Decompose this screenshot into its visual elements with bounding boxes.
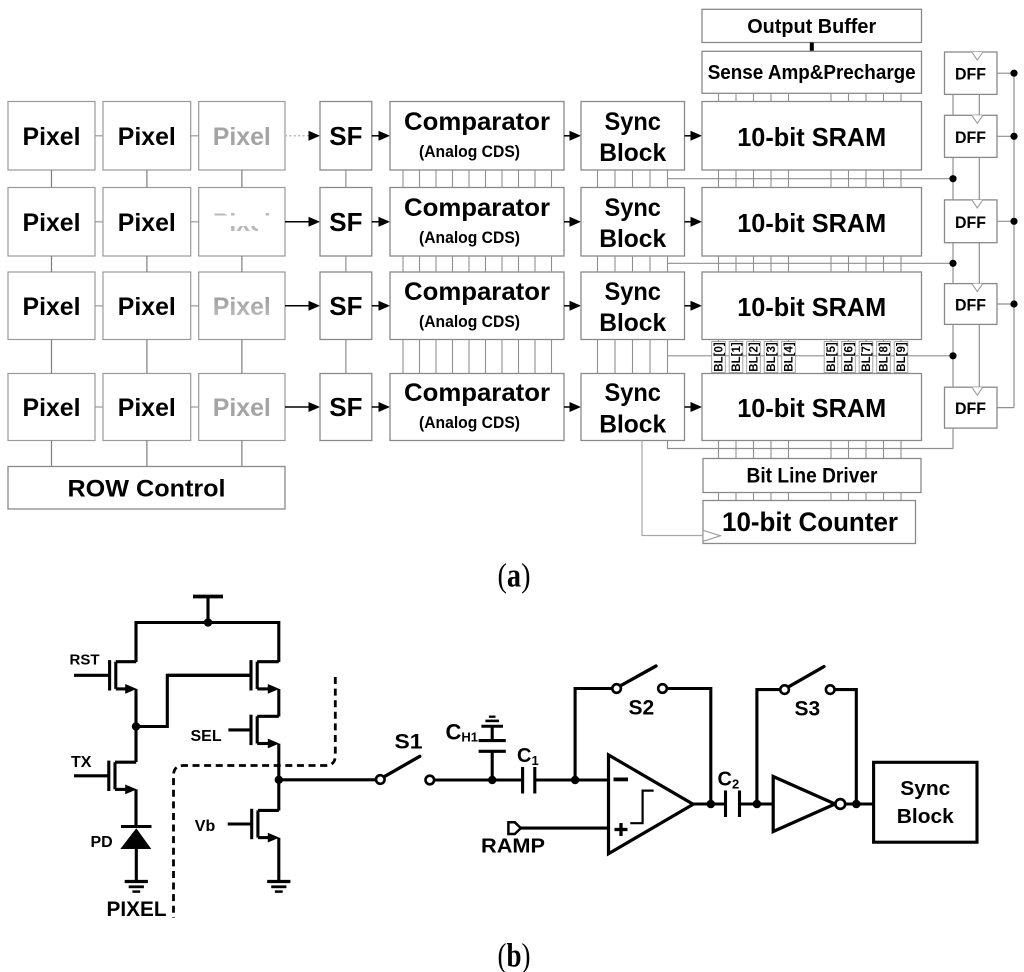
svg-text:DFF: DFF [955, 213, 986, 232]
node label BL[6] [842, 342, 856, 373]
wire FD to SF gate [136, 675, 251, 726]
wire TX source to PD [134, 789, 137, 827]
svg-text:BL[8]: BL[8] [879, 342, 891, 372]
switch S2 blade [620, 666, 656, 686]
wire pixel link r1 c1-c2 [95, 135, 103, 137]
wire pixel column link col2 gap3 [146, 340, 148, 374]
wire sync row2 to DFF chain [668, 262, 954, 264]
arrow Pixel to SF row3 [285, 305, 309, 307]
wire comparator bus line 4 gap3 [468, 340, 470, 374]
svg-text:S2: S2 [629, 697, 655, 720]
wire DFF4 to DFF5 clock [978, 324, 980, 387]
wire sync bus line 1 gap2 [614, 256, 616, 272]
svg-text:PD: PD [91, 834, 113, 851]
wire SRAM2-SRAM3 bit line 5 [830, 256, 832, 272]
switch S1 blade [384, 756, 420, 777]
node FD junction dot [132, 722, 140, 730]
capacitor CH1 [479, 750, 506, 753]
wire BitLineDriver-Counter bit line 7 [865, 493, 867, 501]
wire pixel link r2 c2-c3 [191, 221, 199, 223]
arrow Sync to SRAM row4 [685, 406, 691, 408]
switch S3 right contact [826, 685, 835, 694]
wire comparator bus line 1 gap2 [419, 256, 421, 272]
op-amp plus sign [615, 828, 628, 831]
svg-text:Sync: Sync [604, 278, 661, 306]
node label BL[2] [747, 342, 761, 373]
wire comparator bus line 5 gap2 [485, 256, 487, 272]
wire BitLineDriver-Counter bit line 6 [848, 493, 850, 501]
svg-text:Vb: Vb [195, 818, 216, 835]
wire BitLineDriver-Counter bit line 3 [770, 493, 772, 501]
arrow SF to Comparator row3 [372, 305, 379, 307]
block Pixel row1 col2 [103, 102, 191, 171]
wire SRAM2-SRAM3 bit line 9 [900, 256, 902, 272]
wire SRAM4-BitLineDriver bit line 9 [900, 441, 902, 459]
wire pixel column link col1 gap3 [51, 340, 53, 374]
wire Sync row4 to Counter clock [642, 441, 703, 536]
wire SF column link gap3 [345, 340, 347, 374]
block Comparator row4 [390, 374, 564, 441]
wire SRAM3-SRAM4 bit line 7 [865, 340, 867, 374]
wire DFF2 output stub [997, 135, 1014, 137]
wire SRAM3-SRAM4 bit line 9 [900, 340, 902, 374]
wire pixel link r4 c2-c3 [191, 406, 199, 408]
svg-text:(Analog CDS): (Analog CDS) [419, 312, 520, 331]
block Sync Block row4 [581, 374, 685, 441]
wire SRAM3-SRAM4 bit line 4 [788, 340, 790, 374]
ground Vb [267, 880, 290, 883]
wire SenseAmp-SRAM1 bit line 8 [883, 93, 885, 101]
wire inverter to Sync Block [845, 802, 873, 805]
wire SRAM2-SRAM3 bit line 2 [753, 256, 755, 272]
block Pixel row3 col1 [8, 272, 95, 340]
wire S3 loop left [757, 690, 780, 804]
wire SRAM3-SRAM4 bit line 3 [770, 340, 772, 374]
node inverter input dot [753, 800, 762, 809]
capacitor C1 [521, 767, 524, 794]
svg-text:SF: SF [329, 207, 362, 237]
svg-text:(a): (a) [498, 558, 531, 595]
svg-text:SEL: SEL [191, 728, 222, 745]
wire VDD rail to SF drain [277, 621, 280, 662]
switch S3 left contact [780, 685, 789, 694]
node label BL[5] [824, 342, 838, 373]
wire SRAM2-SRAM3 bit line 6 [848, 256, 850, 272]
wire pixel column link col3 gap2 [241, 256, 243, 272]
transistor SF M3 [167, 674, 251, 677]
svg-text:Sync: Sync [900, 778, 950, 800]
wire SRAM2-SRAM3 bit line 8 [883, 256, 885, 272]
wire DFF1 output stub [997, 72, 1014, 74]
wire SRAM2-SRAM3 bit line 4 [788, 256, 790, 272]
block Sense Amp&Precharge [702, 51, 922, 93]
wire DFF1 to DFF2 left [952, 94, 954, 115]
svg-text:ROW Control: ROW Control [68, 476, 226, 503]
wire SRAM4-BitLineDriver bit line 8 [883, 441, 885, 459]
junction dot DFF1 output [1010, 70, 1017, 77]
switch S1 left contact [376, 775, 385, 784]
block Pixel row3 col3 [199, 272, 285, 340]
svg-text:Pixel: Pixel [23, 293, 81, 321]
wire comparator bus line 3 gap2 [452, 256, 454, 272]
flip-flop DFF1 [945, 52, 998, 94]
wire sync bus line 4 gap1 [667, 170, 669, 188]
svg-text:Pixel: Pixel [213, 123, 271, 151]
junction dot sync row3 wire [949, 352, 956, 359]
wire BitLineDriver-Counter bit line 5 [830, 493, 832, 501]
wire pixel col2 to ROW Control [146, 441, 148, 467]
wire SRAM2-SRAM3 bit line 0 [718, 256, 720, 272]
capacitor C2 [724, 791, 727, 818]
svg-text:BL[5]: BL[5] [826, 342, 838, 372]
svg-text:BL[0]: BL[0] [714, 342, 726, 372]
arrow Pixel to SF row4 [285, 406, 309, 408]
wire DFF2 to DFF3 left [952, 157, 954, 200]
wire pixel column link col1 gap2 [51, 256, 53, 272]
svg-text:PIXEL: PIXEL [107, 898, 167, 921]
wire SRAM1-SRAM2 bit line 5 [830, 170, 832, 188]
wire SRAM3-SRAM4 bit line 8 [883, 340, 885, 374]
junction dot sync row2 wire [949, 260, 956, 267]
wire comparator bus line 2 gap1 [435, 170, 437, 188]
wire sync bus line 0 gap2 [597, 256, 599, 272]
block SF row3 [320, 272, 372, 340]
wire S2 loop left [575, 689, 612, 781]
wire comparator bus line 7 gap1 [518, 170, 520, 188]
wire SF column link gap1 [345, 170, 347, 188]
wire DFF3 to DFF4 clock [978, 243, 980, 284]
block Output Buffer [702, 9, 922, 42]
svg-text:Pixel: Pixel [118, 123, 176, 151]
wire SRAM3-SRAM4 bit line 0 [718, 340, 720, 374]
port RAMP [508, 822, 520, 834]
node label BL[3] [764, 342, 778, 373]
wire column node to S1 [279, 778, 376, 781]
inverter U2 [773, 777, 835, 832]
svg-text:C1: C1 [517, 745, 539, 768]
svg-text:10-bit SRAM: 10-bit SRAM [737, 292, 886, 322]
wire SRAM1-SRAM2 bit line 0 [718, 170, 720, 188]
wire column node to Vb drain [277, 780, 280, 811]
block Comparator row2 [390, 188, 564, 257]
wire sync row3 to DFF chain [668, 355, 954, 357]
arrow SF to Comparator row1 [372, 135, 379, 137]
svg-text:Sense Amp&Precharge: Sense Amp&Precharge [708, 62, 916, 84]
wire comparator bus line 8 gap3 [534, 340, 536, 374]
node label BL[1] [729, 342, 743, 373]
wire DFF2 to DFF3 clock [978, 157, 980, 200]
clock wedge DFF1 [972, 52, 983, 60]
wire comparator bus line 6 gap1 [501, 170, 503, 188]
wire SRAM1-SRAM2 bit line 2 [753, 170, 755, 188]
wire SRAM4-BitLineDriver bit line 0 [718, 441, 720, 459]
clock wedge DFF3 [972, 200, 983, 208]
svg-text:BL[1]: BL[1] [731, 342, 743, 372]
svg-text:Comparator: Comparator [404, 278, 550, 306]
arrow SF to Comparator row4 [372, 406, 379, 408]
svg-text:SF: SF [329, 291, 362, 321]
wire DFF5 output stub [997, 407, 1014, 409]
wire comparator bus line 0 gap1 [402, 170, 404, 188]
wire BitLineDriver-Counter bit line 4 [788, 493, 790, 501]
op-amp hysteresis glyph [630, 791, 653, 824]
wire comparator bus line 0 gap3 [402, 340, 404, 374]
flip-flop DFF5 [945, 387, 998, 428]
transistor SEL M4 [228, 728, 251, 731]
svg-text:Block: Block [599, 411, 666, 439]
wire SRAM1-SRAM2 bit line 6 [848, 170, 850, 188]
wire sync bus line 3 gap1 [649, 170, 651, 188]
wire RAMP to plus input [521, 827, 609, 830]
svg-text:Sync: Sync [604, 194, 661, 222]
power VDD symbol [193, 595, 223, 599]
wire pixel column link col3 gap1 [241, 170, 243, 188]
wire sync row4 to DFF chain [668, 441, 954, 449]
wire comparator bus line 5 gap3 [485, 340, 487, 374]
svg-text:10-bit SRAM: 10-bit SRAM [737, 393, 886, 423]
wire sync bus line 0 gap3 [597, 340, 599, 374]
svg-text:Comparator: Comparator [404, 379, 550, 407]
wire comparator bus line 0 gap2 [402, 256, 404, 272]
wire pixel link r3 c2-c3 [191, 305, 199, 307]
svg-text:Block: Block [599, 309, 666, 337]
wire SRAM2-SRAM3 bit line 1 [735, 256, 737, 272]
svg-text:Pixel: Pixel [23, 394, 81, 422]
junction dot DFF2 output [1010, 133, 1017, 140]
wire DFF3 output stub [997, 220, 1014, 222]
wire comparator bus line 3 gap3 [452, 340, 454, 374]
svg-text:Block: Block [599, 139, 666, 167]
block Pixel row2 col1 [8, 188, 95, 257]
svg-text:Comparator: Comparator [404, 194, 550, 222]
wire SenseAmp-SRAM1 bit line 9 [900, 93, 902, 101]
wire SenseAmp-SRAM1 bit line 1 [735, 93, 737, 101]
block SF row4 [320, 374, 372, 441]
wire SenseAmp-SRAM1 bit line 7 [865, 93, 867, 101]
wire S3 loop right [835, 690, 857, 804]
block 10-bit SRAM row3 [702, 272, 922, 340]
wire SRAM4-BitLineDriver bit line 1 [735, 441, 737, 459]
svg-text:S1: S1 [395, 731, 423, 754]
svg-text:Pixel: Pixel [213, 394, 271, 422]
block 10-bit SRAM row1 [702, 102, 922, 171]
wire S2 loop right [667, 689, 711, 805]
svg-text:DFF: DFF [955, 296, 986, 315]
wire SRAM1-SRAM2 bit line 7 [865, 170, 867, 188]
wire pixel link r2 c1-c2 [95, 221, 103, 223]
wire sync bus line 3 gap3 [649, 340, 651, 374]
wire SRAM4-BitLineDriver bit line 2 [753, 441, 755, 459]
clock wedge DFF2 [972, 115, 983, 123]
svg-text:BL[6]: BL[6] [844, 342, 856, 372]
svg-text:BL[4]: BL[4] [784, 342, 796, 372]
svg-text:Block: Block [897, 806, 955, 828]
wire sync bus line 1 gap1 [614, 170, 616, 188]
wire BitLineDriver-Counter bit line 8 [883, 493, 885, 501]
wire SEL source to column node [277, 744, 280, 780]
wire DFF4 to DFF5 left [952, 324, 954, 387]
wire pixel col1 to ROW Control [51, 441, 53, 467]
svg-text:DFF: DFF [955, 65, 986, 84]
wire comparator bus line 4 gap2 [468, 256, 470, 272]
node label BL[0] [712, 342, 726, 373]
wire SenseAmp-SRAM1 bit line 0 [718, 93, 720, 101]
node label BL[4] [782, 342, 796, 373]
switch S2 left contact [612, 684, 621, 693]
clock wedge DFF4 [972, 284, 983, 292]
wire comparator bus line 2 gap3 [435, 340, 437, 374]
wire SRAM3-SRAM4 bit line 6 [848, 340, 850, 374]
svg-text:10-bit SRAM: 10-bit SRAM [737, 208, 886, 238]
block 10-bit SRAM row4 [702, 374, 922, 441]
block Pixel row4 col2 [103, 374, 191, 441]
wire SRAM4-BitLineDriver bit line 6 [848, 441, 850, 459]
clock wedge 10-bit Counter [704, 531, 721, 542]
svg-text:10-bit Counter: 10-bit Counter [722, 507, 898, 537]
junction dot sync row1 wire [949, 175, 956, 182]
wire PD anode to ground [135, 849, 138, 881]
switch S1 right contact [426, 776, 435, 785]
wire BitLineDriver-Counter bit line 1 [735, 493, 737, 501]
arrow Sync to SRAM row3 [685, 305, 691, 307]
wire DFF1 to DFF2 clock [978, 94, 980, 115]
arrow Comparator to Sync row4 [564, 406, 570, 408]
wire sync bus line 4 gap2 [667, 256, 669, 272]
wire SRAM4-BitLineDriver bit line 4 [788, 441, 790, 459]
wire pixel column link col2 gap2 [146, 256, 148, 272]
wire SenseAmp-SRAM1 bit line 6 [848, 93, 850, 101]
block Pixel row4 col1 [8, 374, 95, 441]
wire VDD rail to RST drain [134, 621, 137, 662]
wire VDD rail [135, 621, 279, 624]
svg-text:Pixel: Pixel [118, 394, 176, 422]
wire comparator bus line 4 gap1 [468, 170, 470, 188]
arrow Sync to SRAM row2 [685, 221, 691, 223]
block SF row1 [320, 102, 372, 171]
svg-text:SF: SF [329, 392, 362, 422]
svg-text:RST: RST [70, 652, 100, 669]
wire pixel link r4 c1-c2 [95, 406, 103, 408]
block ROW Control [8, 467, 285, 510]
svg-text:(Analog CDS): (Analog CDS) [419, 142, 520, 161]
wire FD to TX drain [134, 727, 137, 763]
pixel boundary dashed [174, 677, 336, 918]
switch S2 right contact [658, 684, 667, 693]
flip-flop DFF3 [945, 200, 998, 243]
node comparator input dot [571, 776, 579, 784]
wire comparator bus line 7 gap3 [518, 340, 520, 374]
wire SRAM3-SRAM4 bit line 1 [735, 340, 737, 374]
wire comparator bus line 3 gap1 [452, 170, 454, 188]
wire SenseAmp-SRAM1 bit line 4 [788, 93, 790, 101]
flip-flop DFF4 [945, 284, 998, 325]
transistor TX M2 [74, 774, 109, 777]
svg-text:DFF: DFF [955, 128, 986, 147]
wire C1 to comparator input [535, 778, 609, 781]
svg-text:Sync: Sync [604, 108, 661, 136]
wire BitLineDriver-Counter bit line 9 [900, 493, 902, 501]
svg-text:BL[7]: BL[7] [861, 342, 873, 372]
wire comparator bus line 5 gap1 [485, 170, 487, 188]
wire Output Buffer to Sense Amp (thick) [810, 43, 814, 52]
wire DFF output rail [1013, 73, 1015, 407]
block Pixel row2 col2 [103, 188, 191, 257]
wire comparator bus line 9 gap1 [551, 170, 553, 188]
wire SRAM1-SRAM2 bit line 3 [770, 170, 772, 188]
op-amp comparator U1 [609, 755, 694, 854]
wire comparator bus line 7 gap2 [518, 256, 520, 272]
block SF row2 [320, 188, 372, 257]
arrow Pixel to SF row2 [285, 221, 309, 223]
ground pixel [125, 880, 148, 883]
ac-ground CH1 [481, 725, 503, 728]
junction dot DFF3 output [1010, 218, 1017, 225]
wire pixel link r3 c1-c2 [95, 305, 103, 307]
wire comparator bus line 9 gap2 [551, 256, 553, 272]
block 10-bit Counter [703, 501, 916, 544]
wire RST source to FD [134, 689, 137, 727]
svg-text:Output Buffer: Output Buffer [747, 16, 876, 38]
wire SRAM3-SRAM4 bit line 2 [753, 340, 755, 374]
wire sync bus line 1 gap3 [614, 340, 616, 374]
transistor RST M1 [74, 674, 110, 677]
wire comparator bus line 1 gap3 [419, 340, 421, 374]
node label BL[7] [859, 342, 873, 373]
wire comparator bus line 9 gap3 [551, 340, 553, 374]
wire comparator bus line 8 gap2 [534, 256, 536, 272]
arrow SF to Comparator row2 [372, 221, 379, 223]
wire S1 to C1 [434, 778, 521, 781]
wire sync bus line 2 gap3 [632, 340, 634, 374]
wire SRAM4-BitLineDriver bit line 5 [830, 441, 832, 459]
block Pixel row3 col2 [103, 272, 191, 340]
svg-text:BL[2]: BL[2] [749, 342, 761, 372]
wire SRAM1-SRAM2 bit line 8 [883, 170, 885, 188]
block Comparator row1 [390, 102, 564, 171]
junction dot VDD rail [204, 618, 212, 626]
wire SRAM1-SRAM2 bit line 4 [788, 170, 790, 188]
wire SRAM2-SRAM3 bit line 7 [865, 256, 867, 272]
svg-text:Block: Block [599, 225, 666, 253]
svg-text:(Analog CDS): (Analog CDS) [419, 413, 520, 432]
flip-flop DFF2 [945, 115, 998, 157]
arrow Comparator to Sync row1 [564, 135, 570, 137]
arrow Comparator to Sync row3 [564, 305, 570, 307]
svg-text:Pixel: Pixel [23, 209, 81, 237]
node column output dot [275, 776, 283, 784]
wire DFF4 output stub [997, 303, 1014, 305]
node label BL[8] [877, 342, 891, 373]
wire SRAM1-SRAM2 bit line 1 [735, 170, 737, 188]
block 10-bit SRAM row2 [702, 188, 922, 257]
svg-text:Sync: Sync [604, 379, 661, 407]
svg-text:BL[3]: BL[3] [766, 342, 778, 372]
wire sync row1 to DFF chain [668, 178, 954, 180]
svg-text:DFF: DFF [955, 399, 986, 418]
wire SenseAmp-SRAM1 bit line 3 [770, 93, 772, 101]
wire pixel link r1 c2-c3 [191, 135, 199, 137]
arrow Sync to SRAM row1 [685, 135, 691, 137]
svg-text:SF: SF [329, 121, 362, 151]
wire SRAM2-SRAM3 bit line 3 [770, 256, 772, 272]
wire comparator bus line 6 gap3 [501, 340, 503, 374]
wire comparator bus line 6 gap2 [501, 256, 503, 272]
photodiode PD body [120, 828, 151, 849]
arrow Comparator to Sync row2 [564, 221, 570, 223]
wire SRAM3-SRAM4 bit line 5 [830, 340, 832, 374]
wire SF column link gap2 [345, 256, 347, 272]
wire SRAM1-SRAM2 bit line 9 [900, 170, 902, 188]
